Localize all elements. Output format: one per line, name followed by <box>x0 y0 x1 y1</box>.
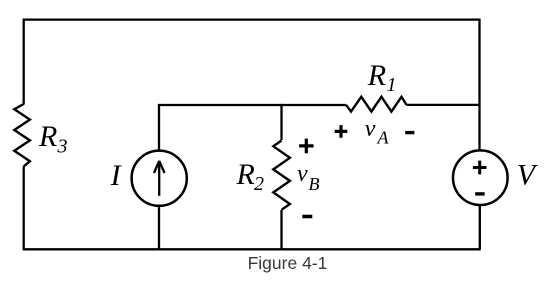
polarity minus vB <box>302 215 312 219</box>
wire right lower <box>479 206 481 250</box>
svg-text:R: R <box>38 120 57 153</box>
svg-text:v: v <box>365 116 376 142</box>
svg-text:Figure 4-1: Figure 4-1 <box>248 253 328 273</box>
svg-text:R: R <box>367 59 386 92</box>
svg-text:1: 1 <box>387 74 397 96</box>
wire stub I bottom <box>158 206 160 250</box>
polarity plus vA <box>335 125 348 138</box>
label R1 <box>367 59 397 96</box>
wire middle node (I / R2 / R1 left) <box>159 104 346 106</box>
wire middle right (R1 to right rail) <box>407 104 480 106</box>
svg-text:R: R <box>236 158 255 191</box>
wire right upper <box>478 19 480 150</box>
label R2 <box>236 158 265 195</box>
label R3 <box>38 120 68 157</box>
wire bottom <box>24 248 481 250</box>
label I <box>110 159 123 192</box>
wire top <box>24 18 480 20</box>
voltage source V <box>453 150 508 205</box>
resistor R3 <box>14 104 30 166</box>
resistor R1 <box>346 97 407 112</box>
wire stub R2 bottom <box>280 210 282 249</box>
resistor R2 <box>273 141 290 210</box>
caption Figure 4-1 <box>248 253 328 273</box>
svg-text:2: 2 <box>254 173 264 195</box>
svg-text:3: 3 <box>57 136 68 158</box>
svg-text:A: A <box>377 128 390 148</box>
polarity minus vA <box>405 131 414 134</box>
wire left upper <box>23 19 25 105</box>
label V <box>517 159 539 192</box>
current source I <box>132 151 187 206</box>
label vA <box>365 116 390 148</box>
svg-text:B: B <box>309 174 320 194</box>
svg-text:v: v <box>297 161 308 187</box>
label vB <box>297 161 320 194</box>
wire stub I top <box>158 104 160 151</box>
wire left lower <box>23 166 25 250</box>
wire stub R2 top <box>280 104 282 140</box>
polarity plus vB <box>299 139 314 154</box>
